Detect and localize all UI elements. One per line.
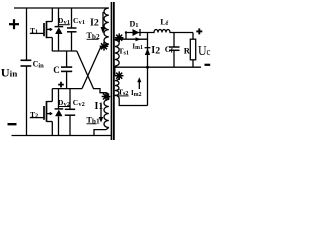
transistor T2 <box>30 89 53 136</box>
plus sign capacitor C <box>58 82 64 88</box>
diode Dv1 <box>55 8 64 51</box>
svg-text:R: R <box>184 46 191 56</box>
wire node M1 <box>52 50 77 52</box>
minus sign input <box>8 123 17 125</box>
wire primary lower bottom lead <box>94 128 109 136</box>
wire crossing diagonal B <box>82 44 109 89</box>
wire secondary lower bottom lead <box>115 95 148 105</box>
polarity dot asterisk A2 <box>115 33 124 42</box>
wire primary lower top lead <box>105 93 109 100</box>
wire input capacitor branch upper <box>26 8 28 60</box>
transistor T1 <box>30 8 53 51</box>
wire top rail <box>14 7 109 9</box>
arrow current Im1 <box>136 37 141 41</box>
svg-text:Uc: Uc <box>198 44 211 59</box>
arrow current I2 primary <box>101 12 106 34</box>
wire2 rectifier lower path <box>126 38 148 40</box>
arrow current Im2 <box>137 77 141 89</box>
svg-text:Uin: Uin <box>1 67 18 79</box>
wire1 rectifier upper path <box>126 32 148 34</box>
capacitor Cf <box>169 33 180 68</box>
wire riser junction <box>125 33 127 40</box>
diode D1 <box>133 29 141 36</box>
plus sign input <box>9 19 19 29</box>
wire load bottom lead <box>192 60 194 67</box>
capacitor Cv1 <box>67 8 77 51</box>
wire node M2 <box>52 88 82 90</box>
resistor R <box>190 39 195 60</box>
winding Tb1 primary lower <box>104 100 109 128</box>
junction node dot <box>146 66 149 69</box>
winding Ts2 secondary lower <box>115 76 119 96</box>
plus sign output <box>196 28 202 34</box>
svg-text:C: C <box>53 65 60 75</box>
wire bottom rail <box>12 135 112 137</box>
wire center tap <box>114 66 116 76</box>
junction node dot riser <box>125 31 127 33</box>
minus sign output <box>205 64 211 66</box>
polarity dot asterisk A4 <box>102 92 111 101</box>
winding Tb2 primary upper <box>104 8 109 44</box>
wire output plus lead <box>192 33 194 40</box>
polarity dot asterisk A1 <box>100 42 109 51</box>
wire crossing diagonal A <box>77 51 105 93</box>
wire vertical node N1 <box>147 33 149 106</box>
svg-text:I1: I1 <box>95 101 104 112</box>
capacitor Cin <box>21 60 32 66</box>
wire input capacitor branch lower <box>26 66 28 136</box>
svg-text:I2: I2 <box>151 45 160 56</box>
diode Dv2 <box>55 89 64 136</box>
capacitor Cv2 <box>65 89 75 136</box>
capacitor C (blocking) <box>61 51 72 89</box>
wire secondary upper top lead <box>115 38 126 41</box>
diode D2 <box>145 48 151 55</box>
polarity dot asterisk A3 <box>115 71 124 80</box>
arrow current I1 primary <box>99 104 104 123</box>
winding Ts1 secondary upper <box>115 40 119 66</box>
transformer core <box>110 2 112 140</box>
inductor Lf <box>148 30 194 33</box>
svg-text:I2: I2 <box>90 17 99 28</box>
